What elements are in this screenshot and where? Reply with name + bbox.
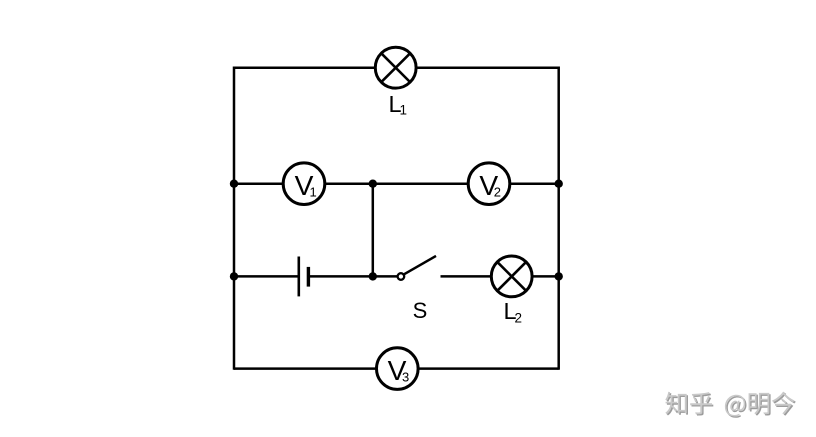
junction node right-battery row [555, 272, 563, 280]
svg-text:3: 3 [402, 370, 409, 385]
voltmeter V3 [377, 348, 419, 390]
wire top [234, 66, 559, 69]
wire left [233, 67, 236, 370]
svg-text:2: 2 [515, 311, 523, 326]
watermark zhihu [665, 392, 796, 418]
wire switch to L2 [441, 275, 559, 278]
voltmeter V2 [468, 163, 510, 205]
battery cell [299, 257, 309, 297]
voltmeter V1 [283, 163, 325, 205]
lamp L2 [491, 256, 532, 326]
svg-text:S: S [413, 298, 428, 323]
junction node right-V2 row [555, 180, 563, 188]
junction node left-battery row [230, 272, 238, 280]
wire battery left [234, 275, 298, 278]
svg-text:2: 2 [494, 185, 501, 200]
svg-text:1: 1 [400, 103, 408, 118]
lamp L1 [375, 47, 416, 117]
svg-text:1: 1 [310, 185, 317, 200]
wire right [557, 67, 560, 370]
junction node mid-battery row [369, 272, 377, 280]
wire bottom [234, 367, 559, 370]
switch S [398, 256, 436, 323]
wire middle row V1 V2 [234, 182, 559, 185]
junction node mid-V1 row [369, 180, 377, 188]
wire vertical link node to battery row [372, 184, 375, 277]
wire battery to switch [310, 275, 400, 278]
junction node left-V1 row [230, 180, 238, 188]
